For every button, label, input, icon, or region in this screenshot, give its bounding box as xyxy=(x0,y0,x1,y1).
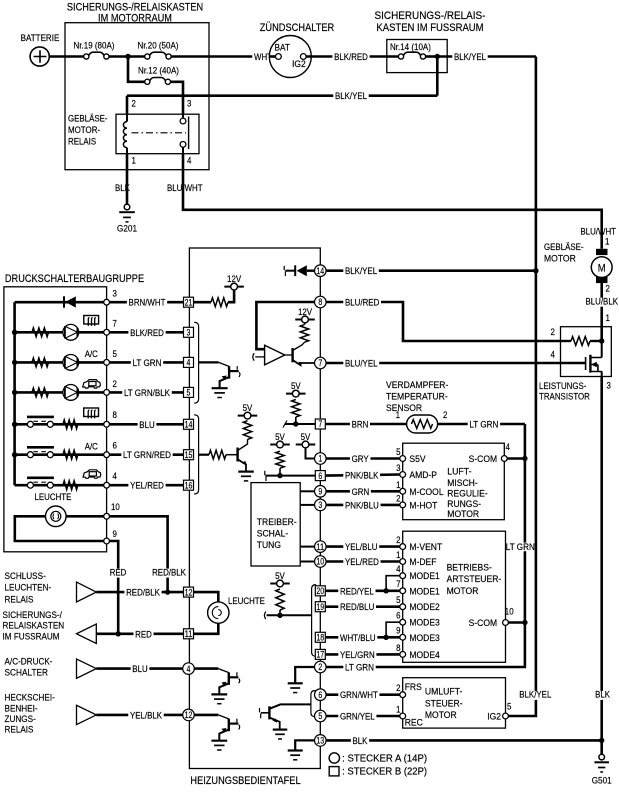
panel pin circle 2 LT GRN xyxy=(315,661,327,673)
ground under pin4 transistor xyxy=(212,387,228,389)
wire driver to pin 11 xyxy=(300,546,314,548)
ignition IG2 terminal xyxy=(300,54,306,60)
svg-text:MOTOR: MOTOR xyxy=(544,254,576,264)
bracket group pins 14-16 xyxy=(194,415,199,494)
svg-text:2: 2 xyxy=(551,327,555,337)
svg-text:3: 3 xyxy=(318,500,322,510)
svg-text:SCHAL-: SCHAL- xyxy=(257,529,288,539)
svg-text:LEISTUNGS-: LEISTUNGS- xyxy=(539,381,586,391)
wire battery to fuse Nr.19 xyxy=(49,55,84,58)
svg-text:1: 1 xyxy=(396,550,400,560)
resistor 5V mode bracket xyxy=(276,589,284,610)
svg-text:IG2: IG2 xyxy=(292,59,306,69)
node BLK xyxy=(599,738,604,743)
svg-text:RED: RED xyxy=(135,629,152,639)
wire YEL/GRN to MODE4 xyxy=(326,653,400,656)
svg-text:GEBLÄSE-: GEBLÄSE- xyxy=(544,242,584,252)
svg-text:M-HOT: M-HOT xyxy=(409,500,437,510)
lamp row pin 7 xyxy=(12,330,17,335)
svg-text:YEL/RED: YEL/RED xyxy=(130,481,164,491)
svg-text:BLU/BLK: BLU/BLK xyxy=(586,297,619,307)
svg-text:MODE1: MODE1 xyxy=(409,571,439,581)
svg-text:BLU/WHT: BLU/WHT xyxy=(580,227,616,237)
ground G201 xyxy=(124,204,130,210)
svg-text:YEL/BLK: YEL/BLK xyxy=(130,710,163,720)
5V supply above BRN pin xyxy=(286,393,306,395)
switch row pin 4 xyxy=(15,484,104,487)
svg-text:19: 19 xyxy=(316,602,324,612)
svg-text:4: 4 xyxy=(396,564,400,574)
defrost icon row 7 xyxy=(84,316,99,325)
pin 9 of switch assembly xyxy=(104,538,110,544)
wire node to fuse Nr.20 xyxy=(128,55,145,58)
wire BRN row inside panel xyxy=(283,421,287,428)
lamp row pin 5 xyxy=(12,360,17,365)
wire source to pin 3 xyxy=(601,371,603,376)
svg-text:15: 15 xyxy=(185,450,193,460)
wire driver to pin 9 xyxy=(300,490,314,492)
svg-text:BLK: BLK xyxy=(353,736,369,746)
svg-text:1: 1 xyxy=(318,454,322,464)
svg-text:SICHERUNGS-/RELAIS-: SICHERUNGS-/RELAIS- xyxy=(375,10,486,22)
node 5V mode xyxy=(277,613,282,618)
svg-text:S-COM: S-COM xyxy=(469,618,498,628)
svg-text:YEL/RED: YEL/RED xyxy=(345,557,379,567)
svg-text:9: 9 xyxy=(396,626,400,636)
svg-text:BETRIEBS-: BETRIEBS- xyxy=(447,563,492,573)
svg-text:: STECKER A (14P): : STECKER A (14P) xyxy=(342,753,427,764)
svg-text:11: 11 xyxy=(185,629,193,639)
svg-text:MODE2: MODE2 xyxy=(409,602,439,612)
wire RED to panel pin 11 xyxy=(96,632,183,635)
svg-text:5V: 5V xyxy=(291,381,301,391)
pin 2 of switch assembly xyxy=(104,390,110,396)
svg-text:GEBLÄSE-: GEBLÄSE- xyxy=(68,114,108,124)
svg-text:IG2: IG2 xyxy=(487,712,501,722)
svg-text:11: 11 xyxy=(316,542,324,552)
svg-text:GRN/WHT: GRN/WHT xyxy=(340,690,378,700)
wire BRN to evaporator sensor xyxy=(326,423,407,426)
svg-text:6: 6 xyxy=(396,611,400,621)
svg-text:10: 10 xyxy=(505,607,514,617)
svg-text:BRN/WHT: BRN/WHT xyxy=(129,298,166,308)
svg-text:MODE3: MODE3 xyxy=(409,618,439,628)
wire/resistor pin 15 row xyxy=(199,454,209,456)
svg-text:GRN/YEL: GRN/YEL xyxy=(340,712,375,722)
5V supply above PNK/BLK row xyxy=(270,444,290,446)
power transistor LEISTUNGS-TRANSISTOR box xyxy=(561,327,612,377)
panel pin square 18 WHT/BLU xyxy=(315,632,325,642)
panel pin square 16 xyxy=(184,480,194,490)
mode motor BETRIEBS-ARTSTEUER-MOTOR box xyxy=(403,531,506,662)
fuse/relay box footwell outline xyxy=(387,40,447,73)
svg-text:BLK/YEL: BLK/YEL xyxy=(519,690,551,700)
5V supply at GRY pin xyxy=(296,444,316,446)
ground under recirculation transistor xyxy=(273,728,288,730)
panel pin square 7 BRN xyxy=(315,419,325,429)
svg-text:G501: G501 xyxy=(592,776,612,787)
ignition BAT terminal xyxy=(276,54,282,60)
svg-text:BLK/RED: BLK/RED xyxy=(130,328,164,338)
svg-text:8: 8 xyxy=(113,410,117,420)
svg-text:STEUER-: STEUER- xyxy=(425,698,463,708)
svg-text:LUFT-: LUFT- xyxy=(447,466,471,476)
panel pin circle 3 PNK/BLU xyxy=(315,499,327,511)
svg-text:LT GRN: LT GRN xyxy=(506,542,535,552)
switch row pin 8 xyxy=(12,422,17,427)
svg-text:: STECKER B (22P): : STECKER B (22P) xyxy=(342,767,427,778)
panel pin circle 1 GRY xyxy=(315,453,327,465)
diode row pin 3 xyxy=(15,301,104,304)
wire YEL/RED to panel pin 16 xyxy=(110,484,184,487)
wire GRN/WHT to recirculation motor FRS xyxy=(326,693,400,696)
12V supply at pin 21 xyxy=(224,286,244,288)
svg-text:5: 5 xyxy=(507,702,511,712)
5V supply above mode bracket xyxy=(270,583,290,585)
panel pin circle 14 xyxy=(315,265,327,277)
svg-text:5V: 5V xyxy=(275,571,285,581)
MOSFET in power transistor xyxy=(601,341,603,358)
svg-text:RED/BLK: RED/BLK xyxy=(152,567,186,577)
arrow from defogger relay xyxy=(77,705,97,724)
wire BLK/YEL ignition feed to relay pin 2 xyxy=(127,94,437,97)
svg-text:ZUNGS-: ZUNGS- xyxy=(5,714,36,725)
wire BLU/WHT relay pin4 to blower motor xyxy=(183,154,602,249)
svg-text:4: 4 xyxy=(113,471,117,481)
panel pin square 19 RED/BLU xyxy=(315,602,325,612)
svg-text:RED/YEL: RED/YEL xyxy=(340,586,374,596)
wire down to relay coil pin 2 xyxy=(126,96,129,115)
bracket group pins 6-5 xyxy=(311,691,316,717)
arrow to footwell fuse box xyxy=(77,624,97,644)
svg-text:1: 1 xyxy=(132,156,136,166)
svg-text:4: 4 xyxy=(187,664,191,674)
panel pin square 14 xyxy=(184,419,194,429)
relay coil xyxy=(126,114,128,121)
wire GRN to servomotor M-COOL xyxy=(326,490,400,493)
svg-text:LEUCHTE: LEUCHTE xyxy=(228,596,265,606)
svg-text:5: 5 xyxy=(318,711,322,721)
ground G501 xyxy=(599,754,605,760)
wire LT GRN/RED to panel pin 15 xyxy=(110,453,184,456)
wire fuse12 to relay pin 3 xyxy=(170,82,183,114)
pin 8 of switch assembly xyxy=(104,421,110,427)
wire pin9 RED down to panel pin 11 xyxy=(110,541,119,634)
transistor pin15 row xyxy=(236,448,238,462)
svg-text:3: 3 xyxy=(113,289,117,299)
svg-text:5: 5 xyxy=(396,595,400,605)
svg-text:LT GRN: LT GRN xyxy=(345,663,374,673)
svg-text:WHT/BLU: WHT/BLU xyxy=(340,633,376,643)
svg-text:14: 14 xyxy=(185,420,193,430)
node RED xyxy=(116,631,121,636)
svg-text:12V: 12V xyxy=(298,307,313,317)
svg-text:5V: 5V xyxy=(301,432,311,442)
svg-text:17: 17 xyxy=(316,650,324,660)
svg-text:SCHALTER: SCHALTER xyxy=(5,667,49,678)
relay contact xyxy=(182,114,184,118)
svg-text:4: 4 xyxy=(551,350,555,360)
svg-text:2: 2 xyxy=(396,535,400,545)
node MODE3 stub xyxy=(383,635,388,640)
svg-text:RED/BLU: RED/BLU xyxy=(340,602,374,612)
svg-text:ARTSTEUER-: ARTSTEUER- xyxy=(447,574,502,584)
node MODE1 stub xyxy=(383,588,388,593)
svg-text:BATTERIE: BATTERIE xyxy=(21,33,60,43)
wire PNK/BLK to servomotor AMD-P xyxy=(326,475,400,476)
resistor 5V to PNK/BLK row xyxy=(276,451,284,468)
wire BLK/YEL panel pin 14 to main vertical xyxy=(326,269,536,272)
transistor at left pin 4 group xyxy=(199,361,219,363)
svg-text:8: 8 xyxy=(396,643,400,653)
panel pin square 4 xyxy=(184,357,194,367)
svg-text:HECKSCHEI-: HECKSCHEI- xyxy=(5,693,55,704)
wire fuse14 to node xyxy=(425,55,437,58)
pin 4 of switch assembly xyxy=(104,482,110,488)
panel pin square 21 xyxy=(184,297,194,307)
svg-text:Nr.20 (50A): Nr.20 (50A) xyxy=(138,41,179,51)
resistor op-amp collector xyxy=(300,325,308,343)
stub MODE1 pins 4-7 xyxy=(386,576,400,591)
panel pin circle 10 YEL/RED xyxy=(315,556,327,568)
wire PNK/BLU to servomotor M-HOT xyxy=(326,504,400,507)
svg-text:5: 5 xyxy=(113,349,117,359)
svg-text:6: 6 xyxy=(318,690,322,700)
svg-text:MODE4: MODE4 xyxy=(409,650,439,660)
wire LT GRN/BLK to panel pin 5 xyxy=(110,391,184,394)
svg-text:IM FUSSRAUM: IM FUSSRAUM xyxy=(3,631,60,642)
svg-text:BLK/YEL: BLK/YEL xyxy=(335,91,367,101)
svg-text:10: 10 xyxy=(111,502,120,512)
wire BLU/YEL panel pin 7 to transistor pin 4 xyxy=(326,362,585,365)
wire LT GRN to panel pin 4 xyxy=(110,361,184,364)
wire WHT/BLU to MODE3 xyxy=(326,636,400,639)
legend connector A xyxy=(329,753,339,763)
svg-text:7: 7 xyxy=(113,319,117,329)
pin 6 of switch assembly xyxy=(104,452,110,458)
wire WHT fuse20 to ignition BAT xyxy=(171,55,276,58)
svg-text:4: 4 xyxy=(506,442,510,452)
main BLK/YEL vertical wire right side xyxy=(508,57,536,717)
panel pin circle 12 left xyxy=(183,709,195,721)
resistor 5V to BRN row xyxy=(292,400,300,418)
fuse/relay box (engine compartment) outline xyxy=(65,23,209,170)
svg-text:BRN: BRN xyxy=(352,420,369,430)
svg-text:TRANSISTOR: TRANSISTOR xyxy=(539,392,590,402)
legend connector B xyxy=(329,767,339,776)
svg-text:BAT: BAT xyxy=(275,43,291,53)
resistor in power transistor xyxy=(571,337,590,346)
resistor 5V pin15 xyxy=(243,421,251,440)
ground under pin15 transistor xyxy=(238,471,254,473)
svg-text:RED: RED xyxy=(110,567,127,577)
svg-text:5V: 5V xyxy=(275,432,285,442)
svg-text:1: 1 xyxy=(605,237,609,247)
svg-text:12: 12 xyxy=(185,710,193,720)
svg-text:8: 8 xyxy=(318,297,322,307)
svg-text:GRY: GRY xyxy=(352,454,369,464)
relay dash link coil to contact xyxy=(132,132,187,134)
svg-text:S-COM: S-COM xyxy=(469,454,498,464)
node RED/BLK xyxy=(165,589,170,594)
node drain/resistor xyxy=(599,338,604,343)
arrow from taillight relay xyxy=(77,582,97,602)
wire GRY to servomotor S5V xyxy=(326,457,400,460)
svg-text:5V: 5V xyxy=(243,403,253,413)
svg-text:A/C-DRUCK-: A/C-DRUCK- xyxy=(5,657,53,668)
svg-text:UMLUFT-: UMLUFT- xyxy=(425,687,463,697)
wire YEL/BLK to panel pin 12 xyxy=(96,714,183,717)
wire GRN/YEL to recirculation motor REC xyxy=(326,715,400,718)
svg-text:LT GRN: LT GRN xyxy=(469,420,498,430)
svg-text:BLK: BLK xyxy=(595,690,611,700)
svg-text:MOTOR-: MOTOR- xyxy=(68,125,100,135)
ground wire at pin 2 LT GRN xyxy=(295,667,314,683)
svg-text:FRS: FRS xyxy=(405,682,422,692)
wire RED/YEL to MODE1 xyxy=(326,589,400,592)
svg-text:2: 2 xyxy=(318,662,322,672)
svg-text:MOTOR: MOTOR xyxy=(447,509,479,519)
svg-text:KASTEN IM FUSSRAUM: KASTEN IM FUSSRAUM xyxy=(376,22,483,34)
svg-text:ZÜNDSCHALTER: ZÜNDSCHALTER xyxy=(260,22,335,34)
svg-text:RUNGS-: RUNGS- xyxy=(447,499,481,509)
driver circuit TREIBER-SCHALTUNG box xyxy=(251,483,300,566)
transistor at op-amp output xyxy=(285,354,292,356)
pin 10 of switch assembly xyxy=(104,513,110,519)
svg-text:LT GRN/RED: LT GRN/RED xyxy=(123,450,171,460)
svg-text:4: 4 xyxy=(187,358,191,368)
diode at panel pin 14 xyxy=(284,266,285,276)
svg-text:A/C: A/C xyxy=(85,442,98,452)
svg-text:21: 21 xyxy=(185,297,193,307)
svg-text:BLU/YEL: BLU/YEL xyxy=(345,359,378,369)
svg-text:5: 5 xyxy=(187,388,191,398)
svg-text:1: 1 xyxy=(396,704,400,714)
svg-text:SICHERUNGS-/: SICHERUNGS-/ xyxy=(3,610,63,621)
wire BLU/RED panel pin 8 to transistor pin 2 xyxy=(326,302,560,341)
panel pin square 20 RED/YEL xyxy=(315,586,325,596)
resistor at pin 21 xyxy=(194,301,211,304)
svg-text:7: 7 xyxy=(396,579,400,589)
svg-text:YEL/GRN: YEL/GRN xyxy=(340,650,375,660)
svg-text:Nr.12 (40A): Nr.12 (40A) xyxy=(138,66,179,76)
switch row pin 6 xyxy=(12,452,17,457)
arrow from A/C pressure switch xyxy=(77,659,97,678)
feedback wire pin8 to op-amp xyxy=(256,302,314,349)
svg-text:A/C: A/C xyxy=(85,349,98,359)
wire pin10 RED/BLK down to panel pin 12 xyxy=(110,516,168,592)
air mix motor LUFT-MISCH-REGULIERUNGS-MOTOR box xyxy=(403,443,505,520)
transistor at pin 12 circle row xyxy=(194,714,218,717)
panel pin circle 6 GRN/WHT xyxy=(315,689,327,701)
svg-text:1: 1 xyxy=(606,313,610,323)
svg-text:9: 9 xyxy=(113,529,117,539)
svg-text:RELAIS: RELAIS xyxy=(68,137,96,147)
svg-text:YEL/BLU: YEL/BLU xyxy=(345,542,378,552)
panel pin circle 7 xyxy=(315,357,327,369)
panel pin circle 8 xyxy=(315,296,327,308)
wire BLK/YEL node to right vertical xyxy=(437,55,536,58)
svg-text:BENHEI-: BENHEI- xyxy=(5,703,38,714)
svg-text:LEUCHTEN-: LEUCHTEN- xyxy=(5,583,52,594)
svg-text:M-VENT: M-VENT xyxy=(409,542,442,552)
svg-text:2: 2 xyxy=(113,379,117,389)
svg-text:MOTOR: MOTOR xyxy=(447,586,479,596)
svg-text:BLK/RED: BLK/RED xyxy=(334,52,368,62)
svg-text:6: 6 xyxy=(113,441,117,451)
5V supply at pin15 transistor xyxy=(238,415,258,417)
illumination bulb LEUCHTE in panel xyxy=(194,592,218,602)
svg-text:2: 2 xyxy=(396,493,400,503)
wire driver to pin 10 xyxy=(300,561,314,563)
wire RED/BLK to panel pin 12 xyxy=(96,591,183,594)
svg-text:14: 14 xyxy=(316,266,324,276)
bracket group pins 20-17 xyxy=(312,585,317,657)
svg-text:VERDAMPFER-: VERDAMPFER- xyxy=(386,380,448,390)
ground under pin12-row transistor xyxy=(211,740,227,742)
svg-text:BLU: BLU xyxy=(132,664,147,674)
wire fuse19 to node xyxy=(109,55,128,58)
svg-text:2: 2 xyxy=(606,284,610,294)
svg-text:3: 3 xyxy=(187,328,191,338)
svg-text:HEIZUNGSBEDIENTAFEL: HEIZUNGSBEDIENTAFEL xyxy=(190,775,300,787)
svg-text:RED/BLK: RED/BLK xyxy=(126,588,160,598)
panel pin square 17 YEL/GRN xyxy=(315,649,325,659)
wire BLK/RED to panel pin 3 xyxy=(110,331,184,334)
pin 7 of switch assembly xyxy=(104,329,110,335)
svg-text:LEUCHTE: LEUCHTE xyxy=(35,492,72,502)
panel pin circle 13 BLK xyxy=(315,735,327,747)
wire YEL/BLU to mode motor M-VENT xyxy=(326,545,400,548)
svg-text:MODE1: MODE1 xyxy=(409,586,439,596)
svg-text:BLU/WHT: BLU/WHT xyxy=(167,183,203,193)
panel pin circle 11 YEL/BLU xyxy=(315,541,327,553)
svg-text:RELAIS: RELAIS xyxy=(5,725,34,736)
heater control panel HEIZUNGSBEDIENTAFEL box xyxy=(189,248,320,769)
ground under pin13 xyxy=(288,749,303,751)
wire node down to fuse Nr.12 xyxy=(128,57,145,82)
svg-text:S5V: S5V xyxy=(409,454,426,464)
panel pin square 15 xyxy=(184,450,194,460)
svg-text:TEMPERATUR-: TEMPERATUR- xyxy=(386,392,448,402)
wire S-COM to LT GRN vertical xyxy=(507,457,525,460)
wire BLK transistor pin3 down to ground G501 xyxy=(600,377,603,755)
panel pin square 6 PNK/BLK xyxy=(315,471,325,481)
recirculation motor UMLUFT-STEUER-MOTOR box xyxy=(403,678,506,728)
svg-text:12V: 12V xyxy=(227,274,242,284)
svg-text:20: 20 xyxy=(316,586,324,596)
svg-text:18: 18 xyxy=(316,633,324,643)
stub MODE3 pins 6-9 xyxy=(386,622,400,637)
svg-text:12: 12 xyxy=(185,587,193,597)
transistor at recirculation control xyxy=(260,708,261,718)
svg-text:BLU/RED: BLU/RED xyxy=(345,298,380,308)
svg-text:TUNG: TUNG xyxy=(257,540,281,550)
node after fuse 19 xyxy=(125,54,130,59)
pin 3 of switch assembly xyxy=(104,299,110,305)
panel pin circle 9 GRN xyxy=(315,486,327,498)
wire BLU/BLK motor to power transistor xyxy=(600,283,603,327)
svg-text:2: 2 xyxy=(443,410,447,420)
svg-text:6: 6 xyxy=(318,471,322,481)
wire LT GRN pin2 to sensor vertical xyxy=(326,424,525,667)
svg-text:Nr.14 (10A): Nr.14 (10A) xyxy=(390,42,431,52)
panel pin square 3 xyxy=(184,327,194,337)
svg-text:3: 3 xyxy=(187,99,191,109)
svg-text:LT GRN: LT GRN xyxy=(133,358,162,368)
svg-text:1: 1 xyxy=(396,480,400,490)
ground under pin4-row transistor xyxy=(211,693,227,695)
